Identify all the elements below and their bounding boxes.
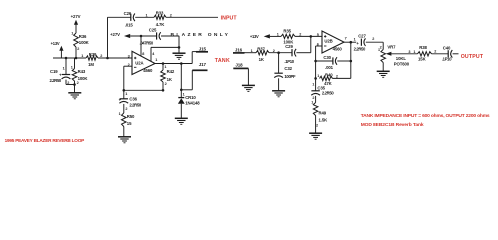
svg-text:2.2R50: 2.2R50 xyxy=(322,91,334,96)
svg-text:7: 7 xyxy=(345,37,347,41)
wire input coupling riser xyxy=(107,17,109,58)
svg-text:2: 2 xyxy=(170,13,172,17)
svg-text:1: 1 xyxy=(71,32,73,36)
svg-text:C40: C40 xyxy=(443,45,451,50)
wire CR10 to ground xyxy=(180,104,182,119)
resistor R38 xyxy=(418,52,432,56)
svg-text:1: 1 xyxy=(378,48,380,52)
wire J18 to ground xyxy=(247,68,249,85)
svg-text:47K: 47K xyxy=(324,81,333,86)
svg-text:J16: J16 xyxy=(235,47,243,52)
svg-text:INPUT: INPUT xyxy=(221,16,238,22)
svg-text:2: 2 xyxy=(77,81,79,85)
capacitor C36 xyxy=(120,98,128,100)
svg-text:100PF: 100PF xyxy=(284,74,296,79)
resistor R43 xyxy=(72,69,77,82)
wire CR10 column xyxy=(180,64,182,98)
svg-text:.1P10: .1P10 xyxy=(284,59,294,64)
svg-text:CR10: CR10 xyxy=(185,95,196,100)
ground below R49 xyxy=(309,132,322,134)
resistor R37 xyxy=(256,51,269,55)
svg-text:100K: 100K xyxy=(79,40,90,45)
capacitor C35 xyxy=(311,90,319,92)
wire J16 to R37 xyxy=(245,52,257,54)
node feedback right xyxy=(162,89,165,92)
wire C19 bottom lead xyxy=(65,80,67,85)
wire R42 top lead xyxy=(162,64,164,71)
wire C36 top lead xyxy=(123,90,125,99)
svg-text:8: 8 xyxy=(142,52,144,56)
svg-text:R43: R43 xyxy=(78,69,86,74)
svg-text:TANK: TANK xyxy=(215,58,230,64)
svg-text:1M: 1M xyxy=(88,62,94,67)
node bias divider xyxy=(75,57,78,60)
resistor R33 xyxy=(154,15,166,19)
ground below C32 xyxy=(272,90,285,92)
svg-text:4560: 4560 xyxy=(143,68,153,73)
ground below VR7 xyxy=(377,70,390,72)
svg-text:.1P10: .1P10 xyxy=(442,56,452,61)
svg-text:15K: 15K xyxy=(418,56,427,61)
wire R43 bottom lead xyxy=(74,81,76,93)
svg-text:C27: C27 xyxy=(358,34,366,39)
svg-text:1: 1 xyxy=(63,66,65,70)
svg-text:1: 1 xyxy=(251,49,253,53)
svg-text:1: 1 xyxy=(312,83,314,87)
svg-text:1: 1 xyxy=(81,54,83,58)
svg-text:1: 1 xyxy=(277,32,279,36)
svg-text:1: 1 xyxy=(71,66,73,70)
svg-text:+27V: +27V xyxy=(110,32,120,37)
capacitor C32 xyxy=(274,72,282,74)
svg-text:1: 1 xyxy=(317,74,319,78)
wiper arrow VR7 xyxy=(386,52,392,56)
svg-text:C36: C36 xyxy=(129,97,137,102)
ground below J18 xyxy=(242,84,255,86)
wire C30 left lead xyxy=(316,60,333,62)
wire +13V to R35 xyxy=(270,35,281,37)
node pin4/ground xyxy=(178,46,181,49)
svg-text:5: 5 xyxy=(317,33,319,37)
wire VR7 to ground xyxy=(382,63,384,72)
svg-text:15: 15 xyxy=(127,121,132,126)
svg-text:2.2R50: 2.2R50 xyxy=(50,78,62,83)
wire R43 top lead xyxy=(74,58,76,69)
svg-text:1: 1 xyxy=(125,92,127,96)
ground below R50 xyxy=(118,136,131,138)
node C30 tap xyxy=(314,60,317,63)
wire R38 to C40 xyxy=(432,53,449,55)
node input coupling xyxy=(106,57,109,60)
svg-text:U2A: U2A xyxy=(135,61,143,66)
svg-text:J15: J15 xyxy=(199,47,207,52)
svg-text:J18: J18 xyxy=(235,62,243,67)
resistor R36 xyxy=(74,33,79,47)
node C19 tap xyxy=(65,57,68,60)
node pin8 tap xyxy=(140,35,143,38)
op-amp U2A xyxy=(132,51,155,74)
capacitor C30 xyxy=(332,57,334,64)
diode CR10 xyxy=(178,97,184,99)
svg-text:1: 1 xyxy=(413,50,415,54)
capacitor C27 xyxy=(360,39,362,46)
svg-text:.047R50: .047R50 xyxy=(140,41,154,46)
svg-text:1.5K: 1.5K xyxy=(319,117,329,122)
svg-text:2: 2 xyxy=(316,124,318,128)
svg-text:C19: C19 xyxy=(50,69,58,74)
resistor R35 xyxy=(281,34,295,38)
svg-text:R42: R42 xyxy=(167,69,175,74)
wire R37 to C29 xyxy=(269,52,292,54)
svg-text:1: 1 xyxy=(311,100,313,104)
resistor R40 xyxy=(320,76,333,80)
wire C27 to VR7 xyxy=(366,41,383,43)
wire R49 to ground xyxy=(315,116,317,134)
svg-text:2.2R50: 2.2R50 xyxy=(354,46,366,51)
svg-text:R35: R35 xyxy=(283,29,291,34)
wire feedback run xyxy=(124,89,163,91)
wire C25 to corner xyxy=(161,35,179,37)
wire C36 to R50 xyxy=(123,104,125,113)
svg-text:+13V: +13V xyxy=(250,34,259,39)
svg-text:R38: R38 xyxy=(419,45,427,50)
wire C35 to R49 xyxy=(315,96,317,103)
wire J17 to CR10 node xyxy=(191,70,193,90)
wire U2B output xyxy=(343,41,356,43)
wire R35 to pin5 xyxy=(295,35,322,37)
svg-text:2: 2 xyxy=(77,47,79,51)
svg-text:+27V: +27V xyxy=(71,14,81,19)
svg-text:R36: R36 xyxy=(79,34,87,39)
svg-text:R33: R33 xyxy=(156,11,164,16)
wire top to C26 xyxy=(108,16,131,18)
wire pin 8 U2A xyxy=(140,36,142,56)
node R42 tap xyxy=(162,62,165,65)
wire C32 top lead xyxy=(278,53,280,73)
potentiometer VR7 xyxy=(381,50,386,63)
wire C40 to OUTPUT xyxy=(453,53,459,55)
svg-text:2: 2 xyxy=(125,107,127,111)
wire C32 to ground xyxy=(278,78,280,91)
wire U2A output xyxy=(154,63,192,65)
wire R39 to pin3 node xyxy=(98,57,132,59)
wire R50 to ground xyxy=(123,127,125,137)
node C30/output column xyxy=(350,60,353,63)
node feedback left xyxy=(123,89,126,92)
svg-text:1: 1 xyxy=(155,58,157,62)
resistor R50 xyxy=(122,113,127,127)
svg-text:100K: 100K xyxy=(78,76,89,81)
svg-text:4.7K: 4.7K xyxy=(156,22,166,27)
wire U2B inverting loop xyxy=(316,45,322,47)
capacitor C29 xyxy=(291,49,293,56)
svg-text:4560: 4560 xyxy=(333,47,343,52)
wire C29 to riser xyxy=(296,52,310,54)
op-amp U2B xyxy=(322,31,344,53)
node R40 tap xyxy=(314,77,317,80)
wire output to J15 xyxy=(191,52,193,64)
svg-text:1: 1 xyxy=(146,13,148,17)
svg-text:BLAZER ONLY: BLAZER ONLY xyxy=(171,32,231,38)
resistor R39 xyxy=(86,56,98,60)
capacitor C19 xyxy=(62,74,70,76)
svg-text:10KL: 10KL xyxy=(396,56,407,61)
svg-text:2: 2 xyxy=(434,50,436,54)
svg-text:OUTPUT: OUTPUT xyxy=(461,54,484,60)
svg-text:+13V: +13V xyxy=(51,41,60,46)
junction C19/R43 xyxy=(73,83,76,86)
svg-text:R49: R49 xyxy=(319,111,327,116)
svg-text:R50: R50 xyxy=(127,114,135,119)
svg-text:C30: C30 xyxy=(323,55,331,60)
node pin5/C29 xyxy=(310,35,313,38)
svg-text:C32: C32 xyxy=(284,66,292,71)
svg-text:U2B: U2B xyxy=(324,39,332,44)
svg-text:R40: R40 xyxy=(325,73,333,78)
wire pin 4 U2A xyxy=(151,46,179,48)
svg-text:1: 1 xyxy=(354,37,356,41)
svg-text:2: 2 xyxy=(299,32,301,36)
svg-text:MOD 8EB2C1B Reverb Tank: MOD 8EB2C1B Reverb Tank xyxy=(361,122,424,128)
wire VR7 wiper to R38 xyxy=(391,53,417,55)
wire R33 to INPUT xyxy=(166,16,218,18)
resistor R49 xyxy=(313,103,318,116)
ground op-amp supply xyxy=(178,47,180,53)
svg-text:3: 3 xyxy=(128,54,130,58)
capacitor C25 xyxy=(156,32,158,39)
ground below R43 xyxy=(68,92,81,94)
svg-text:J17: J17 xyxy=(199,62,207,67)
wire U2A inverting input loop xyxy=(124,65,132,67)
resistor R42 xyxy=(161,70,166,82)
svg-text:C25: C25 xyxy=(149,28,157,33)
ground below CR10 xyxy=(175,117,188,119)
wire R42 bottom lead xyxy=(162,82,164,90)
wire C19 top lead xyxy=(65,58,67,75)
capacitor C40 xyxy=(447,50,449,57)
svg-text:POT600: POT600 xyxy=(394,62,410,67)
svg-text:2.2R50: 2.2R50 xyxy=(129,103,141,108)
svg-text:1: 1 xyxy=(119,112,121,116)
node CR10 tap xyxy=(180,62,183,65)
wire R40 to output column xyxy=(333,77,351,79)
svg-text:1N4148: 1N4148 xyxy=(185,101,200,106)
svg-text:.001: .001 xyxy=(325,65,334,70)
svg-text:.015: .015 xyxy=(125,23,134,28)
svg-text:2: 2 xyxy=(372,37,374,41)
node C32 tap xyxy=(277,51,280,54)
wire C26 to R33 xyxy=(135,16,154,18)
svg-text:3: 3 xyxy=(408,50,410,54)
wire R36 bottom to bias node xyxy=(75,47,77,58)
capacitor C26 xyxy=(130,14,132,21)
wire +27V rail xyxy=(130,35,156,37)
wire C30 right lead xyxy=(337,60,351,62)
svg-text:100K: 100K xyxy=(283,40,294,45)
svg-text:TANK IMPEDANCE INPUT = 600 ohm: TANK IMPEDANCE INPUT = 600 ohms, OUTPUT … xyxy=(361,113,490,119)
svg-text:1995 PEAVEY BLAZER REVERB LOOP: 1995 PEAVEY BLAZER REVERB LOOP xyxy=(5,138,85,143)
wire bias rail xyxy=(53,57,86,59)
svg-text:VR7: VR7 xyxy=(387,45,396,50)
svg-text:2: 2 xyxy=(165,82,167,86)
node J17 tap xyxy=(180,89,183,92)
node output xyxy=(350,41,353,44)
